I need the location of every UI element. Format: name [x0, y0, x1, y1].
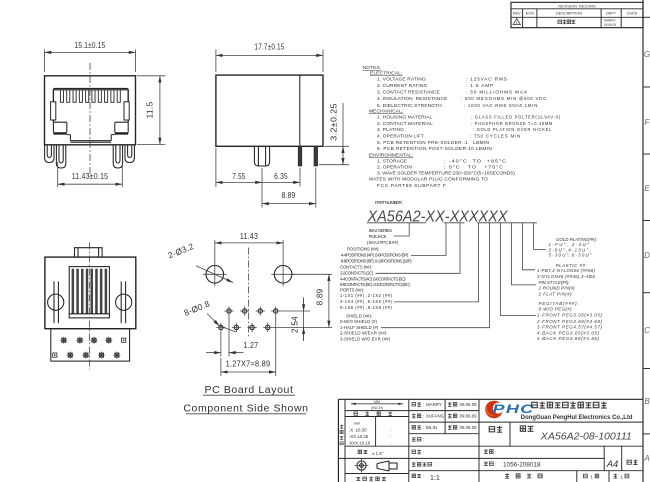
bottom row: not to scale: [505, 473, 509, 478]
svg-text:MARRY: MARRY: [426, 402, 442, 407]
svg-text:: -40°C TO +85°C: : -40°C TO +85°C: [444, 159, 507, 165]
svg-text:4-4POSITIONS (4P) ,6-6POSITION: 4-4POSITIONS (4P) ,6-6POSITIONS (6P): [341, 253, 409, 258]
row: material: [412, 438, 416, 441]
bottom view: solder pins row 1: [62, 338, 66, 342]
svg-text::: :: [423, 414, 424, 419]
leader: pin style: [512, 223, 537, 285]
front view: comb bar: [55, 89, 128, 91]
svg-text:8.89: 8.89: [282, 190, 296, 200]
svg-text:1. STORAGE: 1. STORAGE: [377, 159, 407, 165]
title block horizontal grid: [345, 410, 479, 412]
svg-text:0-W/O PEG(#): 0-W/O PEG(#): [539, 307, 573, 312]
bottom view: centerline: [88, 243, 90, 370]
svg-text:PIN STYLE(##):: PIN STYLE(##):: [539, 280, 571, 285]
bottom view: top latch tab: [75, 248, 103, 257]
row: designer: [412, 403, 416, 406]
dimension 8.89 (side): [315, 168, 317, 208]
svg-text:09.06.09: 09.06.09: [460, 414, 478, 419]
svg-text:C: C: [644, 326, 650, 335]
svg-text:MM: MM: [374, 400, 380, 404]
dimension 1.27X7=8.89: [221, 316, 276, 377]
svg-text:REV: REV: [513, 12, 521, 16]
svg-text::: :: [390, 441, 391, 446]
svg-text:: 500 MEGOHMS MIN @500 VDC: : 500 MEGOHMS MIN @500 VDC: [461, 96, 547, 102]
svg-text:: 1.5 AMP: : 1.5 AMP: [466, 83, 494, 89]
tolerance box: angle row: [358, 450, 361, 454]
front view: vertical centerline: [89, 63, 91, 177]
svg-text:A: A: [643, 454, 649, 463]
svg-text:6.35: 6.35: [274, 171, 288, 181]
svg-text:5. DIELECTRIC STRENGTH: 5. DIELECTRIC STRENGTH: [377, 103, 442, 109]
dimensions 7.55 / 6.35: [216, 148, 300, 208]
side view: body outline: [216, 75, 323, 146]
tolerance box: inner divider: [375, 417, 377, 447]
svg-text::: :: [495, 462, 496, 467]
svg-text:1.27X7=8.89: 1.27X7=8.89: [226, 358, 271, 368]
row: checker: [412, 414, 416, 419]
zone tick marks: [643, 16, 650, 18]
svg-text:PC Board Layout: PC Board Layout: [205, 384, 294, 396]
svg-text:1-FU", 2-3U": 1-FU", 2-3U": [549, 242, 589, 247]
svg-text:3.2±0.25: 3.2±0.25: [329, 103, 339, 141]
svg-text:mm: mm: [354, 421, 361, 426]
svg-text:E: E: [644, 184, 650, 193]
svg-text:4. INSULATION RESISTANCE: 4. INSULATION RESISTANCE: [377, 96, 447, 102]
row: scale: [412, 474, 415, 478]
svg-text:1.27: 1.27: [244, 340, 259, 350]
svg-text:2-FRONT PEG3.68(#3.68): 2-FRONT PEG3.68(#3.68): [536, 319, 603, 324]
svg-text::: :: [423, 474, 424, 479]
svg-text:4-BACK PEG3.05(#3.05): 4-BACK PEG3.05(#3.05): [537, 331, 600, 336]
svg-text:15.1±0.15: 15.1±0.15: [75, 40, 106, 50]
svg-text:D: D: [644, 251, 650, 260]
svg-text:A4: A4: [606, 459, 619, 470]
svg-text:CONTACTS (##):: CONTACTS (##):: [340, 265, 372, 270]
svg-text:4-4CONTACTS (4C) ,6-6CONTACTS: 4-4CONTACTS (4C) ,6-6CONTACTS (6C): [340, 276, 406, 281]
title block outer frame: [338, 399, 643, 482]
svg-text::: :: [423, 437, 424, 442]
svg-text:(56A2#PCB##): (56A2#PCB##): [367, 240, 399, 245]
svg-text:: 125VAC RMS: : 125VAC RMS: [466, 77, 508, 83]
leader: ports: [394, 223, 479, 302]
side view: pcb peg: [254, 146, 269, 166]
bottom view: left ear circle: [48, 294, 64, 310]
front view: right latch tab: [124, 102, 129, 120]
dimension 8.89 (pcb vertical): [272, 274, 332, 327]
dimension 3.2±0.25 (pin length): [319, 146, 349, 164]
dimension 2.54 (pcb rows): [280, 298, 310, 342]
svg-text::: :: [390, 428, 391, 433]
date cells: [448, 402, 452, 407]
svg-text::: :: [423, 450, 424, 455]
side view: pin 2: [314, 146, 318, 166]
svg-text:09.06.09: 09.06.09: [604, 23, 616, 27]
dimension 15.1±0.15 (front width): [45, 50, 136, 73]
svg-text:1-HALF SHIELD (#): 1-HALF SHIELD (#): [340, 325, 379, 330]
svg-text::: :: [423, 402, 424, 407]
svg-text:2.54: 2.54: [289, 316, 299, 333]
svg-text:1-ROUND PIN(#): 1-ROUND PIN(#): [539, 286, 576, 291]
svg-text:.XXX ±0.10: .XXX ±0.10: [348, 441, 371, 446]
pcb: left mounting hole: [206, 266, 224, 284]
leader: plastic: [523, 223, 536, 270]
svg-text:8-8CONTACTS (8C) ,0-10CONTACTS: 8-8CONTACTS (8C) ,0-10CONTACTS (10C): [340, 282, 410, 287]
revision table grid: [511, 2, 643, 27]
svg-text:DongGuan PengHuI Electronics C: DongGuan PengHuI Electronics Co.,Ltd: [521, 414, 633, 421]
svg-text:FCC PART68 SUBPART F: FCC PART68 SUBPART F: [377, 183, 446, 189]
svg-text:4-1X4 (##) ,5-1X5 (##): 4-1X4 (##) ,5-1X5 (##): [340, 299, 393, 304]
leader: contacts: [376, 223, 461, 273]
revision row: triangle symbol: [513, 19, 520, 25]
leader: series bracket: [394, 223, 410, 236]
svg-text:1: 1: [516, 21, 518, 25]
svg-text:NOTES:: NOTES:: [363, 65, 382, 71]
svg-text:3. WAVE SOLDER TEMPERTURE:230~: 3. WAVE SOLDER TEMPERTURE:230~250°C(5~10…: [377, 171, 515, 177]
name cell label: [520, 426, 525, 431]
svg-text:: 750 CYCLES MIN: : 750 CYCLES MIN: [470, 134, 521, 140]
svg-text:1-FRONT PEG3.05(#3.05): 1-FRONT PEG3.05(#3.05): [537, 313, 603, 318]
svg-text:1:1: 1:1: [430, 475, 440, 482]
svg-text:XUFANG: XUFANG: [426, 414, 445, 419]
row: quantity: [412, 450, 416, 453]
svg-text:3-6U",4-15U",: 3-6U",4-15U",: [549, 247, 591, 252]
svg-text:MATES WITH MODULAR PLUG CONFOR: MATES WITH MODULAR PLUG CONFORMING TO: [369, 177, 488, 183]
svg-text:: 1000 VAC RMS 50HZ,1MIN: : 1000 VAC RMS 50HZ,1MIN: [464, 103, 538, 109]
svg-text:F: F: [645, 118, 650, 127]
pcb: label 2-Ø3.2 with leader: [196, 266, 233, 283]
svg-text:3-SHIELD W/O EAR (##): 3-SHIELD W/O EAR (##): [340, 337, 391, 342]
pcb: label 8-Ø0.8 with leader: [207, 314, 220, 327]
svg-text:PEG/TAB(###):: PEG/TAB(###):: [539, 301, 580, 306]
dimension 17.7±0.15 (side width): [216, 50, 323, 73]
svg-text:3-FRONT PEG4.57(#4.57): 3-FRONT PEG4.57(#4.57): [537, 325, 603, 330]
bottom view: solder pins row 2: [53, 353, 57, 357]
title block vertical grid: [344, 399, 346, 482]
strip vertical label: [340, 425, 343, 429]
bottom view: right ear circle: [116, 294, 132, 310]
front view: contact teeth: [60, 90, 63, 102]
svg-text:PORTS (##):: PORTS (##):: [340, 288, 364, 293]
drawing number label: [484, 449, 488, 454]
dimension 11.5 (front height): [137, 76, 166, 145]
svg-text:3. CONTACT RESISTANCE: 3. CONTACT RESISTANCE: [377, 90, 440, 96]
leader: peg/tab: [501, 223, 537, 316]
svg-text:1-1X1 (##) ,2-1X2 (##): 1-1X1 (##) ,2-1X2 (##): [340, 293, 393, 298]
svg-text:(INCH): (INCH): [371, 406, 384, 410]
svg-text:XA56A2-08-100111: XA56A2-08-100111: [540, 432, 632, 443]
leader: shield: [381, 223, 490, 328]
front view: mounting legs: [45, 145, 54, 162]
svg-text:B: B: [644, 397, 650, 406]
svg-text:: 0°C TO +70°C: : 0°C TO +70°C: [444, 165, 504, 171]
svg-text:8-8POSITIONS (8P) ,0-10POSITIO: 8-8POSITIONS (8P) ,0-10POSITIONS (10P): [341, 258, 412, 263]
third angle projection symbol: [357, 461, 366, 470]
svg-text:REVISION RECORD: REVISION RECORD: [558, 3, 596, 8]
svg-text:DRFT: DRFT: [606, 12, 617, 16]
svg-text:: GLASS FILLED POLTER(UL94V-0): : GLASS FILLED POLTER(UL94V-0): [471, 115, 561, 121]
svg-text:MECHANICAL:: MECHANICAL:: [369, 108, 403, 114]
svg-text:ELECTRICAL:: ELECTRICAL:: [370, 70, 403, 76]
svg-text:.X ±0.30: .X ±0.30: [349, 428, 367, 433]
front view: bottom steps of opening: [53, 121, 128, 123]
third angle projection caption: [356, 477, 360, 480]
svg-text:± 1.5°: ± 1.5°: [372, 451, 384, 456]
svg-text:1-PBT,2-NYLON66 (##66): 1-PBT,2-NYLON66 (##66): [537, 268, 596, 273]
svg-text:56A2 SERIES: 56A2 SERIES: [369, 228, 392, 233]
svg-text:0-W/O SHIELD (#): 0-W/O SHIELD (#): [340, 319, 378, 324]
svg-text:: GOLD PLATION OVER NICKEL: : GOLD PLATION OVER NICKEL: [473, 127, 552, 133]
svg-text:PCB JACK: PCB JACK: [369, 234, 387, 239]
pcb: vertical centerline: [248, 248, 250, 339]
svg-text:5-30U",6-50U": 5-30U",6-50U": [549, 253, 592, 258]
svg-text:11.5: 11.5: [145, 102, 155, 119]
svg-text:2-FLAT PIN(#): 2-FLAT PIN(#): [538, 292, 573, 297]
svg-text:G: G: [644, 50, 650, 59]
svg-text:POSITIONS (##):: POSITIONS (##):: [347, 247, 380, 252]
row: surface treatment: [412, 462, 416, 467]
dimension 11.43 (pcb holes span): [215, 240, 283, 263]
bottom view: contact comb block: [69, 267, 109, 318]
company name (chinese): [532, 402, 538, 407]
svg-text:09.06.09: 09.06.09: [460, 402, 478, 407]
svg-text:2. OPERATION: 2. OPERATION: [377, 165, 412, 171]
svg-text:GOLD PLATING(##):: GOLD PLATING(##):: [556, 237, 598, 242]
part number underlines: [367, 222, 537, 224]
svg-text:MARRY: MARRY: [604, 19, 616, 23]
tolerance box: general tolerance row: [354, 412, 358, 415]
svg-text:2-SHIELD W/EAR (##): 2-SHIELD W/EAR (##): [340, 331, 387, 336]
svg-text:2. CURRENT RATING: 2. CURRENT RATING: [377, 83, 427, 89]
svg-text:: PHOSPHOR BRONZE T=0.46MM: : PHOSPHOR BRONZE T=0.46MM: [471, 121, 553, 127]
front view: connector front outline: [45, 76, 136, 145]
row: approver: [412, 425, 415, 429]
dimension 1.27 (pcb offset): [221, 316, 229, 357]
svg-text:: 50 MILLIOHMS MAX: : 50 MILLIOHMS MAX: [466, 90, 528, 96]
svg-text:1. HOUSING MATERIAL: 1. HOUSING MATERIAL: [377, 115, 433, 121]
svg-text::: :: [434, 462, 435, 467]
svg-text:1. VOLTAGE RATING: 1. VOLTAGE RATING: [377, 77, 426, 83]
svg-text:3-NYLON46 (##46),4-ABS: 3-NYLON46 (##46),4-ABS: [537, 274, 595, 279]
svg-text:BILIN: BILIN: [426, 425, 437, 430]
sheet right border: [642, 0, 644, 482]
bottom view: body outline: [45, 257, 136, 329]
svg-text:17.7±0.15: 17.7±0.15: [255, 41, 285, 51]
svg-text:4. OPERATION LIFT: 4. OPERATION LIFT: [377, 134, 424, 140]
PHC logo red swoosh: [485, 401, 503, 419]
svg-text:.XX ±0.25: .XX ±0.25: [349, 434, 369, 439]
bottom view: contact strips: [72, 269, 75, 314]
svg-text:5-BACK PEG3.68(#3.68): 5-BACK PEG3.68(#3.68): [537, 336, 600, 341]
svg-text:PLASTIC ##:: PLASTIC ##:: [556, 263, 588, 268]
series cell label: [489, 427, 494, 432]
svg-text:6. PCB RETENTION POST-SOLDER:1: 6. PCB RETENTION POST-SOLDER:10 LBMIN: [377, 146, 492, 152]
leader: gold plating: [534, 223, 547, 250]
pcb: small holes 8-Ø0.8: [227, 309, 231, 313]
svg-text:11.43±0.15: 11.43±0.15: [72, 171, 109, 181]
side view: flange line: [299, 75, 301, 146]
side view: pin 1: [298, 146, 302, 166]
bottom row: sheet counts: [583, 474, 587, 478]
svg-text::: :: [423, 425, 424, 430]
svg-text:ENVIRONMENTAL:: ENVIRONMENTAL:: [369, 152, 413, 158]
svg-text:1056-208018: 1056-208018: [503, 462, 541, 469]
svg-text:5. PCB RETENTION PRE-SOLDER :1: 5. PCB RETENTION PRE-SOLDER :1 LBMIN: [377, 140, 489, 146]
revision row: description (chinese): [558, 20, 562, 23]
svg-text:ECN: ECN: [526, 12, 534, 16]
front view: left latch tab: [51, 102, 56, 120]
svg-text:DESCRIPTION: DESCRIPTION: [556, 12, 582, 16]
svg-text:CHKD: CHKD: [627, 12, 638, 16]
tolerance box: MM / INCH arrows: [351, 403, 403, 405]
svg-text:11.43: 11.43: [240, 231, 258, 241]
svg-text:7.55: 7.55: [232, 171, 246, 181]
svg-text:Component Side Shown: Component Side Shown: [183, 403, 308, 415]
svg-text::: :: [495, 449, 496, 454]
bottom view: base block: [51, 329, 130, 361]
svg-text:6-1X6 (##) ,8-1X8 (##): 6-1X6 (##) ,8-1X8 (##): [340, 305, 393, 310]
svg-text:PART NUMBER:: PART NUMBER:: [375, 200, 403, 206]
version cell: [627, 460, 631, 464]
pcb: right mounting hole: [274, 266, 292, 284]
svg-text:2. CONTACT MATERIAL: 2. CONTACT MATERIAL: [377, 121, 433, 127]
stock number label: [484, 462, 488, 465]
leader: positions: [411, 223, 446, 256]
svg-text:8.89: 8.89: [315, 289, 325, 306]
svg-text:2-2CONTACTS (2C): 2-2CONTACTS (2C): [340, 270, 374, 275]
dimension 11.43±0.15 (leg span): [58, 162, 123, 187]
svg-text:SHIELD (##):: SHIELD (##):: [346, 313, 372, 318]
svg-text::: :: [390, 434, 391, 439]
svg-text:3. PLATING: 3. PLATING: [377, 127, 404, 133]
svg-text:09.06.09: 09.06.09: [460, 425, 478, 430]
front view: socket opening outline: [53, 89, 128, 122]
